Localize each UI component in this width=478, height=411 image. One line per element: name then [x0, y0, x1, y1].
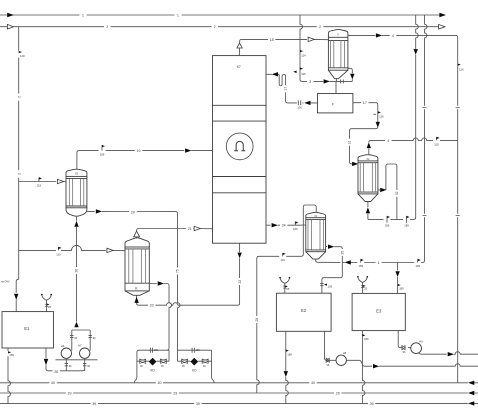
- svg-text:23: 23: [150, 304, 154, 308]
- svg-text:22: 22: [238, 280, 242, 284]
- svg-text:Н8: Н8: [343, 351, 347, 355]
- tank E2: [276, 293, 331, 331]
- pump N7: [80, 348, 90, 358]
- wire line from X1 loop to drop at left (to header 29): [257, 256, 302, 393]
- svg-text:105: 105: [328, 285, 333, 289]
- wire inlet to column K from left vertical: [19, 245, 125, 250]
- svg-text:40: 40: [51, 381, 55, 385]
- flag 125 with arrow on valve vertical: [299, 67, 301, 76]
- svg-text:39: 39: [370, 402, 374, 406]
- svg-text:119: 119: [56, 252, 61, 256]
- svg-text:189: 189: [399, 287, 404, 291]
- svg-text:20: 20: [131, 211, 135, 215]
- flag 124 on valve vertical: [299, 50, 301, 57]
- wire E1 bottom drain to header 39: [8, 348, 11, 403]
- svg-text:Е2: Е2: [301, 308, 307, 313]
- svg-text:96: 96: [69, 365, 72, 368]
- wire pump N9 discharge to right edge: [419, 352, 478, 355]
- column K: [125, 238, 149, 295]
- header 39: [0, 402, 478, 404]
- wire E2 bottom drain to header 39: [286, 331, 289, 403]
- wire feed from L2 junction into E2 top: [320, 262, 342, 293]
- svg-text:96: 96: [327, 364, 330, 367]
- svg-text:29: 29: [68, 391, 72, 395]
- svg-text:К7: К7: [237, 65, 241, 69]
- wire inlet to X3 from left vertical: [19, 181, 66, 183]
- wire stream 4 vertical (right collector): [456, 37, 460, 382]
- svg-text:96: 96: [161, 365, 164, 368]
- svg-text:Н7: Н7: [78, 344, 82, 348]
- wire E3 bottom drain to header 39: [362, 331, 365, 404]
- svg-text:17: 17: [284, 87, 288, 91]
- wire X1 bottom stem to L2 line: [316, 259, 341, 262]
- svg-text:25: 25: [341, 251, 345, 255]
- svg-text:Х: Х: [337, 33, 339, 36]
- svg-text:Н6: Н6: [61, 344, 65, 348]
- KO trap unit left: [134, 348, 169, 383]
- header 40: [0, 382, 478, 384]
- wire feed drop into E3: [397, 263, 399, 294]
- wire X2 side outlet loop (stream 32): [378, 164, 397, 219]
- wire K right outlet down to KO trap: [149, 284, 171, 362]
- separator F: [318, 94, 353, 113]
- svg-text:К: К: [135, 286, 138, 290]
- tank E1: [2, 312, 54, 348]
- wire header line 2: [0, 26, 438, 28]
- svg-text:3: 3: [309, 80, 311, 84]
- tank E3: [352, 293, 405, 330]
- svg-text:96: 96: [87, 365, 90, 368]
- svg-text:2: 2: [319, 25, 321, 29]
- svg-text:39: 39: [92, 402, 96, 406]
- svg-text:21: 21: [188, 227, 192, 231]
- flag on stream 19: [101, 145, 103, 151]
- wire K bottom stem with up arrow: [137, 296, 139, 306]
- wire stream 24 (K7 to X1): [266, 224, 306, 226]
- svg-text:126: 126: [459, 68, 464, 72]
- svg-text:КО: КО: [192, 369, 197, 373]
- wire X1 right outlet (stream 25) down: [326, 247, 343, 263]
- wire stream 19 (X3 top to column K7): [77, 151, 213, 169]
- wire stream 20 (X3 bottom to KO drop): [87, 211, 178, 213]
- svg-text:189: 189: [364, 337, 369, 341]
- svg-text:4: 4: [392, 34, 394, 38]
- wire stream 23 (K7 bottoms to K): [139, 303, 240, 306]
- svg-text:F: F: [332, 102, 334, 106]
- wire pump N8 discharge to right edge: [346, 360, 478, 366]
- header 29: [0, 392, 478, 394]
- svg-text:1: 1: [82, 13, 84, 17]
- wire right vertical drop A (from line 1 to X2 bottom feed): [416, 15, 419, 218]
- wire X1 top recycle loop: [301, 205, 316, 256]
- svg-text:2: 2: [17, 96, 21, 98]
- column K7: [213, 56, 267, 244]
- svg-text:18: 18: [270, 38, 274, 42]
- wire exchanger cone tip to bottom line: [335, 79, 337, 94]
- svg-text:189: 189: [358, 264, 363, 268]
- svg-text:КО: КО: [150, 369, 155, 373]
- wire stream 21 (K top to column K7): [137, 229, 213, 232]
- svg-text:2: 2: [17, 173, 21, 175]
- svg-text:2: 2: [214, 25, 216, 29]
- wire stream 18 (K7 overhead): [240, 39, 329, 55]
- svg-text:29: 29: [336, 391, 340, 395]
- svg-text:31: 31: [348, 140, 352, 144]
- svg-text:189: 189: [293, 227, 298, 231]
- svg-text:189: 189: [404, 223, 409, 227]
- svg-text:126: 126: [379, 115, 384, 119]
- wire E2 bottom right to pump N8: [325, 331, 337, 362]
- KO trap unit right: [178, 348, 215, 383]
- svg-text:189: 189: [287, 352, 292, 356]
- wire exchanger right side down: [348, 68, 352, 81]
- svg-text:125: 125: [301, 72, 306, 76]
- svg-text:40: 40: [158, 381, 162, 385]
- svg-text:на ОЧУ: на ОЧУ: [1, 281, 10, 284]
- exchanger X (top right): [328, 30, 348, 79]
- svg-text:105: 105: [434, 142, 439, 146]
- svg-text:90: 90: [74, 337, 77, 340]
- wire pump discharge legs and header: [70, 330, 92, 351]
- svg-text:96: 96: [403, 351, 406, 354]
- wire header line 1: [0, 14, 440, 16]
- svg-text:189: 189: [9, 353, 14, 357]
- svg-text:Е3: Е3: [376, 309, 382, 314]
- wire E1 bottom to pump suction (stream 26): [46, 348, 85, 371]
- svg-text:189: 189: [415, 264, 420, 268]
- svg-text:39: 39: [196, 402, 200, 406]
- wire F left outlet to loop seal into K7: [266, 74, 318, 105]
- svg-text:106: 106: [297, 106, 302, 110]
- svg-text:4: 4: [387, 139, 389, 143]
- vent triangle on K: [134, 231, 140, 238]
- svg-text:Е1: Е1: [24, 326, 30, 331]
- wire stream 4 overhead line: [348, 35, 458, 37]
- wire stream 22 (K7 bottom outlet): [239, 243, 241, 303]
- pump N8: [336, 355, 346, 365]
- wire L2 distributor line (drop B to X1 bottom): [342, 261, 422, 263]
- svg-text:119: 119: [37, 183, 42, 187]
- svg-text:116: 116: [281, 258, 286, 262]
- svg-text:96: 96: [140, 365, 143, 368]
- svg-text:1: 1: [177, 13, 179, 17]
- svg-text:124: 124: [301, 53, 306, 57]
- svg-text:26: 26: [75, 269, 79, 273]
- vent funnel on E3: [358, 277, 367, 293]
- wire right vertical drop B (from line 1 to L2 distributor): [423, 15, 428, 263]
- svg-text:17: 17: [363, 101, 367, 105]
- wire vertical from line 1 through valves to exchanger bottom: [300, 15, 352, 83]
- svg-text:25: 25: [364, 287, 367, 291]
- svg-text:189: 189: [196, 349, 201, 352]
- svg-text:189: 189: [154, 349, 159, 352]
- svg-text:189: 189: [100, 152, 105, 156]
- svg-text:25: 25: [48, 305, 51, 309]
- wire pump suction line: [56, 358, 98, 370]
- svg-text:26: 26: [54, 370, 58, 374]
- compressor symbol inside K7: [234, 141, 245, 150]
- svg-text:96: 96: [203, 365, 206, 368]
- svg-text:32: 32: [395, 191, 399, 195]
- vent funnel on E1: [42, 295, 51, 312]
- svg-text:1: 1: [378, 261, 380, 265]
- pump N6: [61, 348, 71, 358]
- wire left feed vertical (stream 2 drop): [16, 27, 19, 312]
- svg-text:28: 28: [255, 318, 259, 322]
- svg-text:Н9: Н9: [419, 340, 423, 344]
- svg-text:25: 25: [286, 287, 289, 291]
- vent funnel on E2: [280, 278, 289, 293]
- svg-text:75: 75: [176, 269, 180, 273]
- svg-text:2: 2: [106, 25, 108, 29]
- wire E3 bottom right to pump N9: [398, 331, 411, 350]
- heat exchanger X3 (left): [66, 169, 87, 216]
- svg-text:19: 19: [137, 149, 141, 153]
- svg-text:24: 24: [282, 224, 286, 228]
- svg-text:96: 96: [182, 365, 185, 368]
- svg-text:90: 90: [93, 337, 96, 340]
- svg-text:Х3: Х3: [75, 173, 79, 176]
- svg-text:120: 120: [20, 54, 25, 58]
- wire drop leg from stream 20 to right KO: [178, 214, 181, 362]
- wire F right outlet down to X2 (stream 27/31): [350, 103, 378, 164]
- wire X2 overhead to right collector: [369, 138, 458, 155]
- flag 120: [19, 51, 22, 53]
- vessel X2: [358, 155, 378, 202]
- stream labels on header lines 1 and 2: [79, 13, 86, 17]
- svg-text:29: 29: [173, 391, 177, 395]
- svg-text:189: 189: [385, 223, 390, 227]
- wire X2 bottom feed line: [368, 202, 416, 220]
- wire riser from pumps to X3 bottom (stream 26 up): [76, 216, 78, 322]
- pump N9: [411, 343, 422, 354]
- svg-text:40: 40: [311, 381, 315, 385]
- vessel X1: [306, 212, 326, 259]
